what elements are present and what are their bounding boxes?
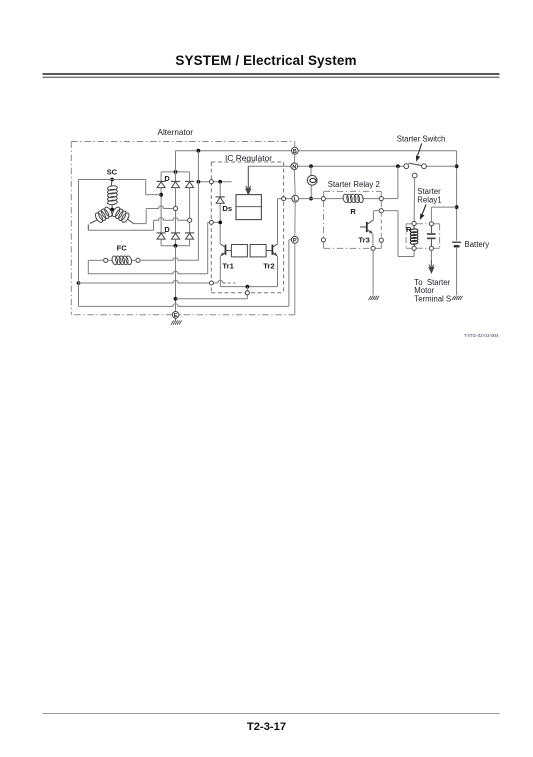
- wire: phase2 to bridge column3: [88, 218, 187, 231]
- svg-text:SC: SC: [107, 168, 118, 177]
- svg-text:SYSTEM / Electrical System: SYSTEM / Electrical System: [175, 53, 356, 68]
- wire: emitter bus to ground bus: [246, 287, 248, 299]
- wire: emitter bus of Tr1/Tr2: [220, 256, 277, 287]
- svg-text:P: P: [293, 238, 297, 244]
- svg-text:R: R: [350, 207, 356, 216]
- footer rule: [43, 713, 500, 715]
- wire: terminal N row to starter switch: [248, 165, 456, 167]
- boundary circle on IC box (emitter ground): [245, 291, 249, 295]
- svg-text:Tr2: Tr2: [263, 262, 274, 271]
- battery: [452, 242, 461, 247]
- wire: rectifier output to terminal B and battery line: [176, 150, 457, 152]
- relay1 terminal circles: [412, 221, 434, 250]
- node: lamp bottom junction: [309, 197, 313, 201]
- node: bottom bus junction: [174, 244, 178, 248]
- label To Starter Motor Terminal S: [414, 278, 451, 304]
- node: battery/relay1 contact junction: [455, 205, 459, 209]
- diode D (bottom row col3): [185, 233, 194, 246]
- relay2 terminal circles: [321, 197, 383, 251]
- svg-text:Relay1: Relay1: [417, 196, 441, 205]
- svg-text:Ds: Ds: [222, 204, 232, 213]
- transistor Tr1: [220, 244, 231, 256]
- node: Ds bottom / field return junction: [218, 221, 222, 225]
- wire: B+ feed stub into regulator: [198, 181, 231, 183]
- diode Ds: [216, 196, 225, 198]
- charge lamp: [307, 175, 317, 185]
- terminal circle: phase 3 tap: [188, 218, 192, 222]
- node: B+ stub branch: [197, 180, 201, 184]
- wire: N sense into regulator: [247, 165, 249, 168]
- boundary circle on IC box (base sense): [209, 281, 213, 285]
- transistor Tr2: [266, 244, 277, 256]
- node: battery/switch junction: [455, 164, 459, 168]
- node: phase 1 tap: [159, 193, 163, 197]
- svg-text:D: D: [164, 174, 170, 183]
- ground (alternator frame): [171, 321, 174, 325]
- arrow to starter switch: [416, 144, 422, 162]
- wire: P pickup line: [79, 180, 292, 307]
- node: switch / relay2 coil return junction: [396, 164, 400, 168]
- diode D (top row col2): [171, 172, 180, 188]
- node: stator phase 1 top: [110, 178, 114, 182]
- label Starter Relay1: [417, 187, 441, 204]
- svg-text:Tr1: Tr1: [222, 262, 234, 271]
- stator coil SC phase 1 (vertical): [107, 180, 117, 209]
- terminal P: [291, 236, 298, 243]
- svg-text:Tr3: Tr3: [358, 235, 369, 244]
- node: emitter bus junction: [246, 285, 250, 289]
- wire: bridge column 3 middle: [189, 188, 191, 233]
- svg-text:T4TG-02-03-004: T4TG-02-03-004: [464, 333, 499, 338]
- diode D (bottom row col1): [157, 233, 166, 246]
- wire: right battery drop: [456, 151, 458, 296]
- arrow to starter relay1: [420, 205, 426, 220]
- resistor box (Tr1 base): [231, 245, 247, 257]
- wire: phase1 to P pickup (left drop): [79, 179, 113, 181]
- ground (Tr3 emitter): [369, 296, 372, 300]
- svg-text:FC: FC: [117, 244, 128, 253]
- boundary circle on IC box (L wire): [282, 197, 286, 201]
- wire: phase1 to bridge column1: [112, 180, 161, 195]
- wire: Ds chain vertical: [219, 182, 221, 244]
- wire: relay1 contact to starter motor (arrow): [430, 250, 432, 261]
- wire: switch to relay1 coil: [413, 178, 416, 222]
- transistor Tr3: [360, 220, 374, 234]
- wire: E terminal ground stub: [175, 318, 177, 320]
- stator coil phase 2 (to lower left): [88, 206, 113, 230]
- svg-text:Starter Switch: Starter Switch: [397, 134, 446, 143]
- ground (battery): [452, 296, 455, 300]
- wire: Tr3 emitter to ground: [372, 234, 374, 295]
- resistor box (Tr2 base): [250, 245, 266, 257]
- node: B+ branch to field coil feed: [197, 149, 201, 153]
- wire: bridge top bus: [161, 171, 190, 173]
- wire: FC right to B+: [140, 151, 198, 261]
- wire: ground bus to regulator: [176, 298, 248, 300]
- starter switch: [404, 163, 427, 178]
- wire: bridge negative drop: [175, 246, 177, 312]
- node: top bus junction: [174, 170, 178, 174]
- terminal circle: phase 2 tap: [173, 206, 177, 210]
- regulator unit U1: [236, 195, 261, 220]
- starter relay 1 boundary box: [406, 224, 440, 249]
- diode D (top row col3): [185, 172, 194, 188]
- wire: Tr2 collector to terminal L: [278, 199, 292, 244]
- stator coil phase 3 (to lower right): [111, 206, 134, 224]
- node: Ds top junction: [218, 180, 222, 184]
- svg-text:Battery: Battery: [465, 240, 490, 249]
- wire: top bus to B+ wire: [175, 151, 177, 172]
- svg-text:IC Regulator: IC Regulator: [225, 153, 272, 163]
- wire: regulator base sense line: [77, 280, 236, 285]
- wire: phase3 to bridge column2: [134, 206, 174, 224]
- svg-text:N: N: [292, 164, 296, 170]
- terminal N: [291, 163, 298, 170]
- wire: lamp drop from N row: [310, 166, 312, 198]
- field coil FC with terminals: [104, 255, 140, 265]
- header double rule: [43, 74, 500, 77]
- node: negative / regulator ground junction: [174, 297, 178, 301]
- relay1 contact: [427, 226, 436, 246]
- svg-text:Starter Relay 2: Starter Relay 2: [328, 180, 380, 189]
- svg-text:Alternator: Alternator: [158, 128, 194, 137]
- node: stator star point: [110, 208, 114, 212]
- wire: field return into IC box: [209, 221, 218, 223]
- wire: bridge column 2 middle: [175, 188, 177, 233]
- wire: battery to relay1 contact: [431, 207, 456, 222]
- wire: bridge column 1 middle: [160, 188, 162, 233]
- svg-text:Terminal S: Terminal S: [414, 295, 451, 304]
- wire: terminal L row: [299, 198, 322, 200]
- relay1 coil R: [410, 226, 418, 247]
- wire: Tr3 collector to relay2 output: [373, 211, 379, 220]
- node: lamp top junction: [309, 164, 313, 168]
- svg-text:E: E: [174, 313, 178, 319]
- diode D (bottom row col2): [171, 233, 180, 246]
- svg-text:B: B: [293, 149, 297, 155]
- wire: field return drop outside box: [208, 222, 210, 273]
- boundary circle on IC box (field return): [209, 220, 213, 224]
- wire: relay2 coil return to switch junction: [383, 166, 398, 198]
- svg-text:R: R: [406, 225, 412, 234]
- IC regulator boundary box: [211, 162, 283, 293]
- alternator boundary box: [71, 142, 295, 315]
- wire: bridge bottom bus: [161, 245, 190, 247]
- svg-text:L: L: [293, 197, 297, 203]
- starter relay 2 boundary box: [324, 191, 382, 248]
- terminal L: [292, 195, 299, 202]
- svg-text:T2-3-17: T2-3-17: [247, 721, 286, 733]
- boundary circle on IC box (B+ stub): [209, 180, 213, 184]
- terminal E: [172, 312, 179, 319]
- diode D (top row col1): [157, 172, 166, 188]
- relay2 coil R: [326, 194, 380, 203]
- wire: relay2 output to relay1 coil: [383, 211, 414, 257]
- wire: FC left to regulator field return: [88, 260, 207, 274]
- svg-text:D: D: [164, 225, 170, 234]
- terminal B: [291, 147, 298, 154]
